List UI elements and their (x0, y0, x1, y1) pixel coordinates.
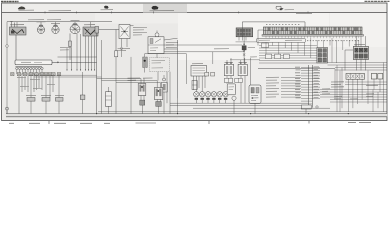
wire coil HT to center (145, 54, 187, 57)
sheet tint patch center-top (178, 13, 329, 60)
wire drops to ground bus (131, 57, 306, 114)
solenoid top x marks (226, 62, 246, 64)
right harness wire labels middle (322, 89, 374, 99)
header gray block (143, 4, 187, 13)
noise filter box on left rail (95, 27, 99, 34)
diode matrix box (353, 47, 368, 60)
alternator label text (84, 24, 95, 26)
ECU strip base plate (262, 35, 364, 37)
wire strip drops into harness (266, 38, 359, 63)
bus junction dots (96, 113, 349, 114)
relay connector pair on rail (192, 81, 197, 90)
sheet tint patch left (2, 13, 95, 120)
strip T feed rows wires (281, 78, 301, 98)
junction below igniter (121, 48, 123, 58)
wire rail x250 upper (250, 58, 252, 85)
left connector row (11, 73, 61, 76)
cold start injector label (225, 61, 234, 63)
wire right harness verticals (335, 69, 380, 112)
bottom margin copyright text (136, 122, 157, 124)
lower sensor B label (41, 94, 51, 96)
wire feed to igniter (99, 30, 119, 51)
connector strip terminal text left (295, 67, 300, 95)
lower sensor C (56, 98, 64, 114)
left connector row x marks (11, 73, 61, 75)
fuse row bottom stubs (17, 70, 42, 74)
check connector (236, 28, 253, 37)
VSV solenoid no1 (224, 58, 233, 76)
header small text left (49, 10, 72, 12)
cigarette lighter tall box (106, 87, 112, 114)
rear connector pair (371, 74, 383, 80)
feed label text (60, 47, 72, 50)
splice junction circle (232, 96, 236, 100)
igniter IC box (119, 25, 130, 39)
ECU pin text upper row (266, 24, 300, 26)
title text top-left (1, 1, 19, 3)
sheet tint patch middle-left upper light (95, 13, 178, 23)
injector no1 (194, 92, 199, 104)
mid bus rail 3 (193, 107, 330, 109)
solenoid resistor block (191, 66, 207, 77)
mid bus rail 1 (170, 102, 309, 104)
wire drops from alternator and connectors (67, 34, 95, 70)
wire long drops to lower components (19, 74, 59, 114)
harness upper small box (250, 43, 269, 57)
node label above connector T1 (37, 21, 46, 23)
ignition coil bars (143, 57, 148, 73)
header tick marks (45, 11, 308, 13)
title text top-right (365, 0, 391, 2)
EFI main relay (148, 37, 164, 54)
circuit opening relay (249, 85, 261, 104)
wire top bus to check connector (7, 22, 305, 28)
fuse box top bus (16, 65, 43, 67)
resistor block label (192, 63, 203, 65)
VSV solenoid no2 (238, 58, 247, 76)
fuse row bottom rail (17, 73, 42, 75)
lower sensor B (42, 98, 50, 114)
page background (0, 0, 391, 129)
sheet tint patch right-top (330, 13, 387, 47)
wire relay to ECU rail (157, 38, 178, 58)
connector T3 round large (70, 22, 80, 34)
wire check connector down (239, 37, 246, 41)
condenser on rail (115, 51, 118, 114)
node label above connector T3 (71, 19, 80, 21)
oxygen sensor vertical connector (309, 65, 313, 108)
resistor pack column (317, 48, 328, 64)
wire extra drops left (22, 74, 53, 98)
header icon engine on gray block (150, 6, 175, 11)
ECU strip pin stubs (266, 36, 359, 38)
strip T feed rows text (266, 77, 279, 97)
lower sensor C label (55, 94, 64, 96)
harness small box c (284, 54, 290, 59)
wire middle horizontal run C (116, 82, 160, 84)
wire diode matrix drops (345, 36, 366, 70)
ground junction marker left (6, 107, 9, 114)
left drop labels (17, 77, 55, 88)
connector strip pin leads left (301, 68, 309, 102)
wire igniter down (122, 39, 128, 48)
wire ECU inner rail (185, 54, 187, 84)
side sender line (82, 72, 84, 114)
distributor dashed enclosure (149, 58, 169, 72)
right area label text rows (331, 82, 378, 87)
ECU connector strip (264, 27, 363, 35)
wire distributor drops (158, 72, 170, 114)
water temp sensor (138, 79, 146, 114)
wire center horizontal runs (164, 45, 244, 52)
junction marker left upper (6, 45, 9, 48)
oil pressure sender chain (161, 75, 167, 114)
wire resistor drops (194, 76, 206, 92)
wire middle horizontal run B (102, 80, 158, 82)
alternator (83, 27, 98, 36)
junction circle right of strip (316, 106, 318, 108)
wire drop arrowheads (66, 70, 95, 72)
igniter label rows (133, 27, 147, 35)
EFI main relay circle pin (155, 31, 159, 37)
node label above connector T2 (51, 22, 60, 24)
wire ECU left rail (177, 40, 179, 98)
wire left cross runs (28, 75, 102, 77)
injector no6 (223, 92, 228, 104)
schematic sheet interior (2, 3, 387, 121)
harness small box a (266, 54, 272, 59)
harness small box b (275, 54, 281, 59)
center label text (214, 47, 255, 48)
wire rail vertical x101 (101, 40, 103, 114)
connector pair above injectors (224, 78, 242, 82)
main ground bus band (6, 114, 387, 117)
header icon component small (101, 6, 114, 10)
check valve box (227, 84, 235, 95)
battery label text (10, 24, 24, 26)
wire fusible link output arrow (52, 61, 59, 63)
connector strip pin leads right (312, 68, 320, 99)
box L connector feet (205, 72, 215, 76)
fusible link block (15, 60, 52, 65)
sensor below connector T3 (69, 33, 72, 60)
injector no3 (205, 92, 210, 104)
wire battery to fusible link (15, 35, 17, 60)
connector strip bottom box (301, 105, 311, 109)
lower sensor A (27, 98, 35, 114)
relay label rows (166, 42, 178, 47)
sensor cluster labels middle (128, 78, 153, 80)
rear junction block row (346, 74, 365, 80)
wire left margin drop (6, 22, 8, 114)
ECU label frame under strip (257, 38, 306, 42)
header icon car silhouette left (18, 6, 34, 10)
VSV solenoid no2 label (239, 61, 248, 63)
wire main bus risers (17, 22, 91, 27)
bottom margin tick marks (49, 121, 309, 124)
wire K lateral runs (230, 42, 260, 60)
strip T left label texts (296, 70, 301, 98)
start injector time switch (154, 81, 162, 114)
mid-right harness rows (259, 46, 317, 64)
wire battery terminal stubs (10, 22, 14, 28)
wire right upper harness horizontals (328, 63, 388, 71)
fuse row (16, 67, 43, 69)
wire solenoid drops (227, 76, 245, 104)
wire rail vertical x96 (96, 33, 98, 114)
lower sensor A label (26, 94, 36, 96)
wire right harness horizontals (320, 82, 387, 102)
wire middle horizontal run A (97, 78, 141, 80)
injector no2 (200, 92, 205, 104)
connector T1 round (37, 23, 44, 34)
ECU pin number text row right (307, 40, 359, 42)
igniter terminal text (118, 48, 131, 50)
wire center vertical x212 (213, 37, 244, 64)
header icon connector arrow (276, 6, 294, 10)
battery (10, 27, 27, 35)
injector no5 (217, 92, 222, 104)
connector T2 round (52, 24, 59, 34)
igniter title text (124, 25, 134, 27)
wire secondary feed (58, 56, 97, 58)
bottom margin grid labels (9, 122, 371, 125)
diode box label (354, 44, 365, 46)
bus label text (28, 19, 61, 21)
wire main feed to right (59, 61, 96, 63)
sheet tint patch middle-left (95, 13, 178, 120)
strip T right label texts (314, 67, 320, 98)
side sender box (80, 95, 85, 100)
wire strip pigtail left (258, 30, 264, 46)
mid bus rail 2 (170, 105, 301, 107)
header note text right (296, 12, 312, 14)
wire right extra verticals (332, 38, 384, 112)
harness bus lower (258, 68, 335, 70)
mid bus rail 4 (98, 111, 387, 113)
injector no4 (211, 92, 216, 104)
diode and resistor in center (242, 44, 246, 56)
header separator line (2, 11, 387, 13)
